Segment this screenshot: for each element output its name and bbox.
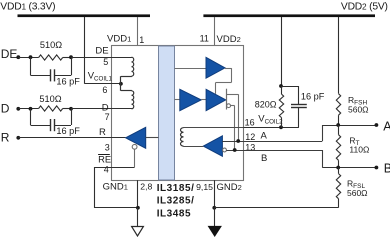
svg-text:510Ω: 510Ω — [39, 94, 61, 104]
VDD2 power rail — [203, 14, 375, 17]
svg-text:VDD1 (3.3V): VDD1 (3.3V) — [0, 1, 55, 12]
node A line — [322, 125, 376, 127]
wire RE down — [94, 167, 96, 208]
svg-text:A: A — [383, 119, 390, 133]
junction GND1 — [136, 206, 140, 210]
capacitor 16pF (DE) — [50, 69, 52, 81]
resistor RFSH 560ohm — [336, 94, 340, 116]
inverting bubble on right receiver — [223, 148, 227, 152]
wire VDD1 rail to VCOIL1 — [84, 17, 86, 84]
terminal DE — [16, 55, 20, 59]
svg-text:VDD2 (5V): VDD2 (5V) — [341, 1, 388, 12]
wire VCOIL1 pin 6 — [85, 83, 121, 85]
svg-text:IL3285/: IL3285/ — [157, 196, 195, 207]
wire RE to GND1 node — [94, 207, 138, 209]
wire bubble to B — [231, 105, 235, 107]
wire coil L1 bottom to tap — [121, 76, 132, 78]
wire pin 16 VCOIL2 — [243, 127, 299, 129]
wire C3 top — [298, 86, 300, 104]
svg-text:DE: DE — [1, 47, 18, 61]
receiver buffer U1a (R output) — [126, 127, 146, 148]
svg-text:VDD2: VDD2 — [217, 34, 241, 45]
wire T1 output left — [216, 82, 232, 84]
junction D left — [29, 107, 33, 111]
svg-text:16: 16 — [245, 118, 255, 128]
svg-text:12: 12 — [245, 132, 255, 142]
svg-text:3: 3 — [105, 143, 110, 153]
svg-text:110Ω: 110Ω — [349, 145, 369, 155]
junction DE right — [69, 55, 73, 59]
wire R1 enable to RE — [134, 149, 136, 167]
svg-text:GND1: GND1 — [103, 182, 128, 193]
svg-text:R: R — [99, 127, 106, 138]
junction D right — [69, 107, 73, 111]
wire GND2 to ground — [214, 208, 216, 227]
svg-text:510Ω: 510Ω — [40, 40, 62, 50]
wire GND2 run — [214, 207, 338, 209]
wire R terminal to receiver R1 output — [18, 137, 125, 139]
driver buffer U1c — [180, 89, 201, 110]
svg-text:B: B — [384, 161, 390, 175]
wire tap to coil L2 top — [121, 90, 132, 92]
svg-text:16 pF: 16 pF — [56, 76, 80, 86]
wire T1 output — [225, 68, 231, 70]
wire DE cap branch left — [30, 57, 32, 75]
driver buffer U1b (top) — [206, 57, 225, 78]
node B line — [322, 167, 376, 169]
svg-text:GND2: GND2 — [217, 182, 242, 193]
wire bar to A — [226, 94, 238, 96]
junction pin 13 — [233, 148, 237, 152]
wire pin 13 B — [226, 150, 322, 152]
wire R2 to junction — [63, 108, 71, 110]
terminal R — [16, 136, 20, 140]
wire GND1 pin 2,8 — [137, 180, 139, 208]
svg-text:4: 4 — [104, 165, 109, 175]
resistor 820ohm — [279, 94, 283, 117]
junction VCOIL1 coil tap — [119, 82, 123, 86]
wire barrier to driver T1 — [175, 68, 207, 70]
wire VDD2 rail to RFSH — [338, 17, 340, 94]
svg-text:A: A — [261, 131, 268, 142]
wire down to pin 13 net — [234, 106, 236, 150]
svg-text:11: 11 — [200, 34, 209, 44]
svg-text:2,8: 2,8 — [140, 181, 152, 191]
junction GND2 — [212, 206, 216, 210]
terminal A — [375, 123, 379, 127]
ground symbol GND2 (filled) — [209, 226, 222, 236]
capacitor 16pF (VCOIL2) — [291, 104, 307, 106]
enable bubble on R1 — [132, 144, 137, 149]
receiver comparator U1e (right) — [203, 136, 222, 157]
transformer coil L1 (DE-VCOIL1) — [132, 57, 134, 76]
junction A / RFSH / RT — [336, 123, 340, 127]
wire VDD2 pin 11 — [214, 17, 216, 46]
wire DE to R1 — [18, 57, 38, 59]
transformer coil L2 (VCOIL1-D) — [132, 91, 134, 109]
svg-text:B: B — [261, 153, 267, 164]
wire to 820ohm top — [281, 86, 283, 94]
capacitor 16pF (D) — [50, 119, 52, 131]
wire B riser — [322, 150, 324, 168]
wire D junction to pin 7 — [71, 108, 132, 110]
wire to C1 left plate — [31, 75, 51, 77]
svg-text:560Ω: 560Ω — [348, 105, 369, 115]
svg-text:5: 5 — [103, 57, 108, 67]
terminal B — [375, 166, 379, 170]
svg-text:820Ω: 820Ω — [255, 99, 277, 109]
driver buffer U1d — [206, 89, 226, 110]
wire DE cap branch right — [71, 57, 73, 75]
inverting bubble on output stage — [227, 104, 231, 108]
svg-text:DE: DE — [95, 45, 108, 56]
junction B / RT / RFSL — [336, 166, 340, 170]
wire D to R2 — [18, 108, 38, 110]
wire D cap branch left — [30, 109, 32, 125]
svg-text:VDD1: VDD1 — [107, 34, 131, 45]
terminal D — [16, 107, 20, 111]
wire C1 right plate to junction — [55, 75, 71, 77]
wire pin 12 A — [222, 141, 322, 143]
resistor RT 110ohm — [336, 135, 340, 161]
svg-text:1: 1 — [139, 35, 144, 45]
svg-text:13: 13 — [245, 143, 255, 153]
svg-text:9,15: 9,15 — [196, 182, 213, 192]
wire D cap branch right — [71, 109, 73, 125]
wire down to pin 12 net — [238, 94, 240, 141]
svg-text:RE: RE — [98, 153, 111, 164]
wire coil top to pin 16 — [183, 127, 243, 129]
wire C3 bottom to VCOIL2 — [298, 107, 300, 127]
wire RFSL bottom to GND2 rail — [338, 199, 340, 208]
svg-text:IL3185/: IL3185/ — [157, 183, 195, 194]
wire 820ohm bottom to VCOIL2 — [281, 118, 283, 128]
wire coil tap — [120, 76, 122, 91]
wire A to RT — [338, 125, 340, 135]
junction VCOIL2 — [279, 125, 283, 129]
wire RFSH bottom to A — [338, 115, 340, 125]
svg-text:7: 7 — [105, 112, 110, 122]
resistor 510ohm (D) — [39, 106, 63, 111]
wire B to RFSL — [338, 168, 340, 174]
resistor RFSL 560ohm — [336, 174, 340, 199]
wire DE junction to pin 5 — [71, 57, 132, 59]
wire junction to C3 — [281, 86, 299, 88]
wire VDD1 pin 1 — [137, 17, 139, 46]
wire T1 output into T2b — [215, 83, 217, 94]
wire GND2 pin 9,15 — [214, 180, 216, 208]
junction pin 12 — [236, 139, 240, 143]
junction DE left — [29, 55, 33, 59]
wire RE pin 4 — [94, 167, 135, 169]
wire GND1 to ground — [137, 208, 139, 227]
wire T2a to T2b — [201, 99, 206, 101]
wire C2 right plate to junction — [55, 125, 71, 127]
wire RT to B — [338, 160, 340, 167]
svg-text:16 pF: 16 pF — [301, 91, 325, 101]
svg-text:560Ω: 560Ω — [347, 188, 368, 198]
wire receiver output to coil — [183, 146, 203, 148]
wire to C2 left plate — [31, 125, 51, 127]
svg-text:R: R — [1, 130, 10, 144]
svg-text:IL3485: IL3485 — [157, 208, 191, 219]
wire A riser — [322, 125, 324, 141]
svg-text:6: 6 — [102, 85, 107, 95]
wire VDD2 rail to 820ohm — [281, 17, 283, 86]
wire R1 to junction — [63, 57, 71, 59]
VDD1 power rail — [18, 14, 151, 17]
ground symbol GND1 (open) — [132, 227, 144, 237]
svg-text:D: D — [1, 101, 10, 115]
transformer coil L3 (right) — [181, 128, 184, 146]
isolation barrier band — [159, 46, 175, 180]
svg-text:16 pF: 16 pF — [56, 126, 80, 136]
output stage bar — [226, 89, 228, 110]
wire T1 output down — [231, 68, 233, 82]
IC body U1 IL3185/IL3285/IL3485 — [112, 46, 244, 181]
wire R1 input from barrier — [146, 137, 159, 139]
resistor 510ohm (DE) — [39, 55, 63, 60]
wire barrier to driver T2a — [175, 99, 180, 101]
junction 820/cap — [279, 84, 283, 88]
